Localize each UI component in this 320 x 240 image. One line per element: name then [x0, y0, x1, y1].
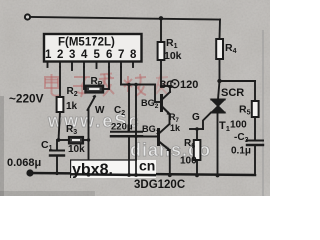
svg-text:10k: 10k — [68, 144, 85, 155]
svg-text:ybx8.: ybx8. — [72, 162, 113, 179]
resistor R3 10k horizontal — [59, 139, 70, 141]
svg-text:SCR: SCR — [221, 87, 244, 99]
resistor R1 10k — [160, 18, 162, 42]
potentiometer R body — [86, 86, 104, 93]
wire gate diagonal to triac — [203, 113, 211, 130]
char 4 — [127, 76, 129, 92]
wire BG2 base — [154, 85, 156, 103]
circuit ink — [25, 14, 263, 175]
svg-text:1k: 1k — [66, 101, 78, 112]
svg-text:120: 120 — [180, 79, 198, 91]
svg-text:W: W — [95, 105, 105, 116]
op-amp U1 IC box F(M5172L) — [44, 34, 142, 62]
wire pin stubs — [47, 62, 49, 67]
wire pin7 branch — [120, 67, 122, 85]
svg-text:220μ: 220μ — [111, 122, 133, 133]
resistor R2 1k — [57, 97, 64, 112]
pink watermark row (hand-drawn hanzi strokes) — [45, 74, 168, 98]
white patch watermark box ybx8 — [70, 160, 156, 178]
svg-text:5: 5 — [94, 49, 101, 61]
wire top rail — [30, 17, 220, 20]
svg-text:G: G — [192, 112, 200, 123]
capacitor C2 220u — [128, 85, 130, 132]
resistor R5 100 — [252, 101, 259, 117]
node rail junction dots — [55, 172, 219, 178]
potentiometer wiper W arrow — [88, 97, 96, 111]
char 3 — [99, 78, 114, 79]
char 1 — [45, 77, 58, 88]
char 5 faint — [156, 77, 168, 78]
wire segments crossing patch — [70, 160, 156, 175]
svg-text:100: 100 — [230, 120, 247, 131]
wire pin2 to R2 — [59, 67, 61, 97]
svg-text:0.1μ: 0.1μ — [231, 146, 251, 157]
wire to R5 chain — [220, 80, 256, 82]
svg-text:6: 6 — [106, 49, 112, 61]
svg-text:3: 3 — [69, 49, 75, 61]
svg-text:3DG120C: 3DG120C — [134, 179, 185, 191]
capacitor C1 0.068u — [56, 140, 58, 150]
svg-text:1k: 1k — [170, 123, 181, 133]
wire bottom rail — [30, 173, 255, 175]
svg-text:0.068μ: 0.068μ — [7, 157, 41, 169]
gray www watermark rows — [47, 111, 211, 160]
terminal bottom AC input — [27, 170, 32, 175]
svg-text:4: 4 — [81, 49, 88, 61]
wire pin6 down — [108, 67, 110, 89]
scan edge shading — [0, 96, 4, 196]
wire base feed horizontal — [121, 84, 155, 86]
transistor Q1 BG1 — [157, 128, 160, 146]
svg-text:F(M5172L): F(M5172L) — [58, 37, 115, 49]
svg-text:cn: cn — [139, 158, 155, 174]
terminal top AC input — [25, 14, 30, 19]
thyristor SCR T1 (triac) — [218, 81, 220, 100]
wire gate node horizontal — [190, 128, 203, 130]
resistor R6 100 — [196, 129, 198, 140]
svg-text:2: 2 — [57, 49, 63, 61]
node junction R1 top — [159, 16, 163, 20]
node anode junction — [217, 79, 221, 83]
transistor Q2 BG2 — [160, 94, 163, 112]
resistor R4 — [219, 20, 222, 40]
wire BG1 base feed — [135, 85, 137, 176]
svg-text:8: 8 — [130, 49, 137, 61]
svg-text:100: 100 — [180, 156, 197, 167]
svg-text:1: 1 — [45, 49, 52, 61]
svg-text:~220V: ~220V — [9, 92, 44, 106]
svg-text:10k: 10k — [164, 50, 182, 62]
right edge scan artifact line — [262, 30, 264, 196]
capacitor C3 0.1u — [247, 140, 263, 142]
pin numbers 1-8 — [45, 49, 137, 61]
svg-text:7: 7 — [118, 49, 124, 61]
wire pin4 to pot — [83, 67, 85, 89]
char 2 — [74, 76, 90, 78]
scan background — [0, 0, 270, 196]
